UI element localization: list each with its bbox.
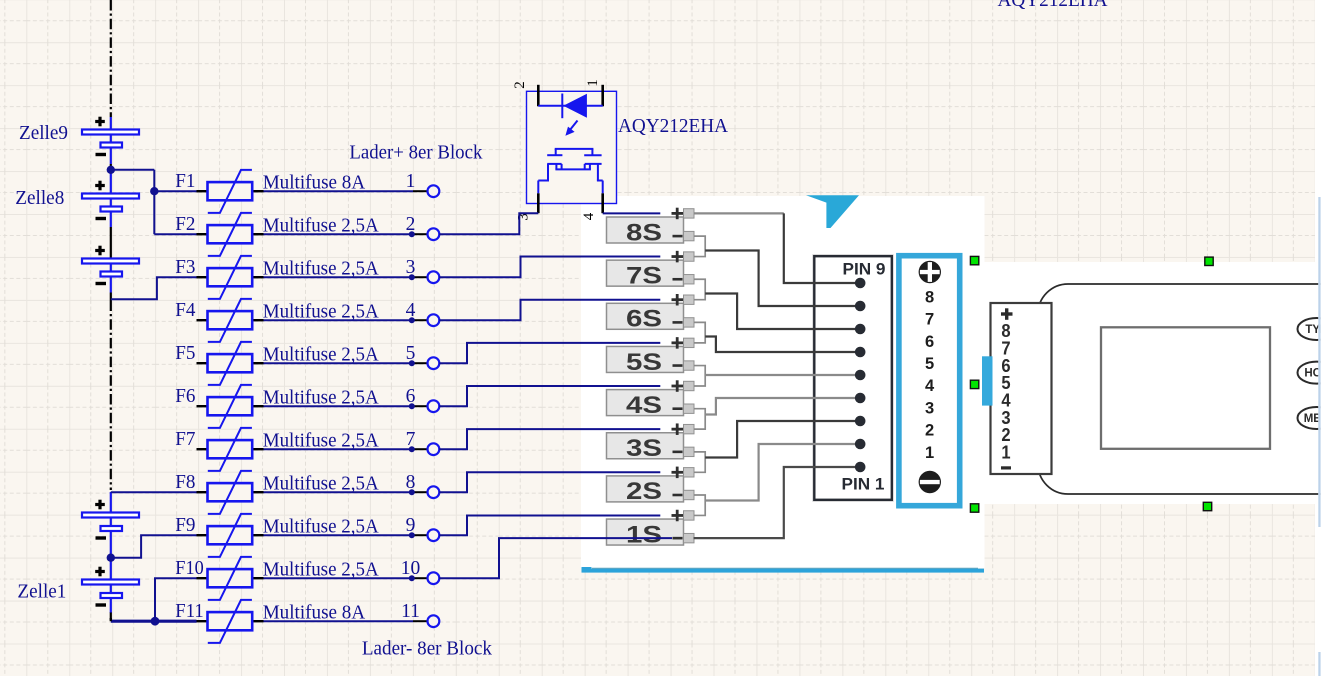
svg-text:7: 7 xyxy=(925,311,934,329)
svg-text:AQY212EHA: AQY212EHA xyxy=(618,115,729,137)
svg-text:6S: 6S xyxy=(626,306,662,333)
svg-text:Multifuse 8A: Multifuse 8A xyxy=(263,173,366,194)
svg-text:8S: 8S xyxy=(626,219,662,246)
svg-text:1: 1 xyxy=(1001,443,1010,463)
svg-text:Zelle9: Zelle9 xyxy=(19,123,68,144)
svg-text:Multifuse 8A: Multifuse 8A xyxy=(263,603,366,624)
svg-text:PIN 1: PIN 1 xyxy=(842,476,885,494)
svg-text:1S: 1S xyxy=(626,521,662,548)
svg-text:F8: F8 xyxy=(175,472,195,493)
svg-text:Lader+ 8er Block: Lader+ 8er Block xyxy=(349,142,482,164)
svg-text:Multifuse 2,5A: Multifuse 2,5A xyxy=(263,345,379,366)
svg-text:F6: F6 xyxy=(175,386,195,407)
svg-text:Multifuse 2,5A: Multifuse 2,5A xyxy=(263,388,379,409)
svg-text:Lader- 8er Block: Lader- 8er Block xyxy=(362,638,492,660)
svg-text:Multifuse 2,5A: Multifuse 2,5A xyxy=(263,517,379,538)
svg-text:7S: 7S xyxy=(626,262,662,289)
svg-text:F11: F11 xyxy=(175,601,203,622)
svg-text:F7: F7 xyxy=(175,429,195,450)
svg-text:2S: 2S xyxy=(626,478,662,505)
svg-text:2: 2 xyxy=(512,81,528,89)
svg-text:F1: F1 xyxy=(175,171,195,192)
svg-text:F10: F10 xyxy=(175,558,203,579)
svg-text:Multifuse 2,5A: Multifuse 2,5A xyxy=(263,216,379,237)
svg-text:4: 4 xyxy=(581,212,597,220)
svg-text:1: 1 xyxy=(585,79,601,87)
svg-text:Multifuse 2,5A: Multifuse 2,5A xyxy=(263,259,379,280)
svg-text:AQY212EHA: AQY212EHA xyxy=(998,0,1109,11)
svg-text:Zelle8: Zelle8 xyxy=(15,188,64,209)
svg-text:F9: F9 xyxy=(175,515,195,536)
svg-text:4S: 4S xyxy=(626,392,662,419)
svg-text:Multifuse 2,5A: Multifuse 2,5A xyxy=(263,302,379,323)
svg-text:3: 3 xyxy=(516,213,532,221)
svg-text:Multifuse 2,5A: Multifuse 2,5A xyxy=(263,560,379,581)
svg-text:1: 1 xyxy=(406,171,416,192)
svg-text:5: 5 xyxy=(925,355,934,373)
svg-text:2: 2 xyxy=(925,422,934,440)
svg-text:4: 4 xyxy=(925,377,935,395)
svg-text:8: 8 xyxy=(925,288,934,306)
svg-text:3S: 3S xyxy=(626,435,662,462)
svg-text:F3: F3 xyxy=(175,257,195,278)
svg-text:11: 11 xyxy=(401,601,420,622)
svg-text:1: 1 xyxy=(925,444,934,462)
svg-text:5S: 5S xyxy=(626,349,662,376)
svg-text:Zelle1: Zelle1 xyxy=(17,582,66,603)
svg-text:F2: F2 xyxy=(175,214,195,235)
svg-text:6: 6 xyxy=(925,333,934,351)
svg-text:PIN 9: PIN 9 xyxy=(843,261,886,279)
svg-text:F4: F4 xyxy=(175,300,195,321)
svg-text:F5: F5 xyxy=(175,343,195,364)
svg-text:Multifuse 2,5A: Multifuse 2,5A xyxy=(263,474,379,495)
svg-text:Multifuse 2,5A: Multifuse 2,5A xyxy=(263,431,379,452)
svg-text:3: 3 xyxy=(925,399,934,417)
